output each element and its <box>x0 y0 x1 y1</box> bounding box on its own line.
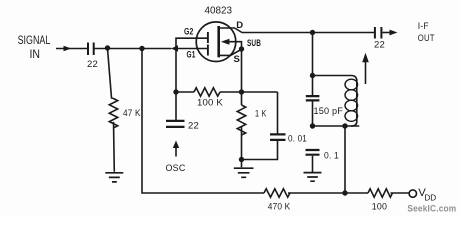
svg-text:OSC: OSC <box>166 163 186 174</box>
svg-text:SIGNAL: SIGNAL <box>18 35 51 47</box>
svg-text:150 pF: 150 pF <box>314 106 344 117</box>
svg-text:I-F: I-F <box>418 21 429 32</box>
svg-text:22: 22 <box>87 59 98 70</box>
svg-text:22: 22 <box>188 120 199 131</box>
svg-text:100: 100 <box>372 201 387 212</box>
svg-text:S: S <box>234 54 241 65</box>
svg-text:SUB: SUB <box>247 38 261 49</box>
svg-text:40823: 40823 <box>205 5 233 17</box>
svg-text:100 K: 100 K <box>197 97 223 108</box>
svg-text:470 K: 470 K <box>268 201 291 212</box>
svg-text:DD: DD <box>424 194 436 203</box>
svg-text:G1: G1 <box>187 50 196 61</box>
svg-text:22: 22 <box>374 40 385 51</box>
svg-text:OUT: OUT <box>418 33 435 44</box>
svg-text:IN: IN <box>30 49 41 61</box>
svg-text:0. 01: 0. 01 <box>288 134 307 145</box>
svg-text:D: D <box>236 20 243 31</box>
svg-text:47 K: 47 K <box>123 108 141 119</box>
svg-text:0. 1: 0. 1 <box>324 151 339 162</box>
svg-text:SeekIC.com: SeekIC.com <box>407 203 456 214</box>
svg-text:1 K: 1 K <box>255 109 267 120</box>
svg-text:G2: G2 <box>184 27 194 38</box>
